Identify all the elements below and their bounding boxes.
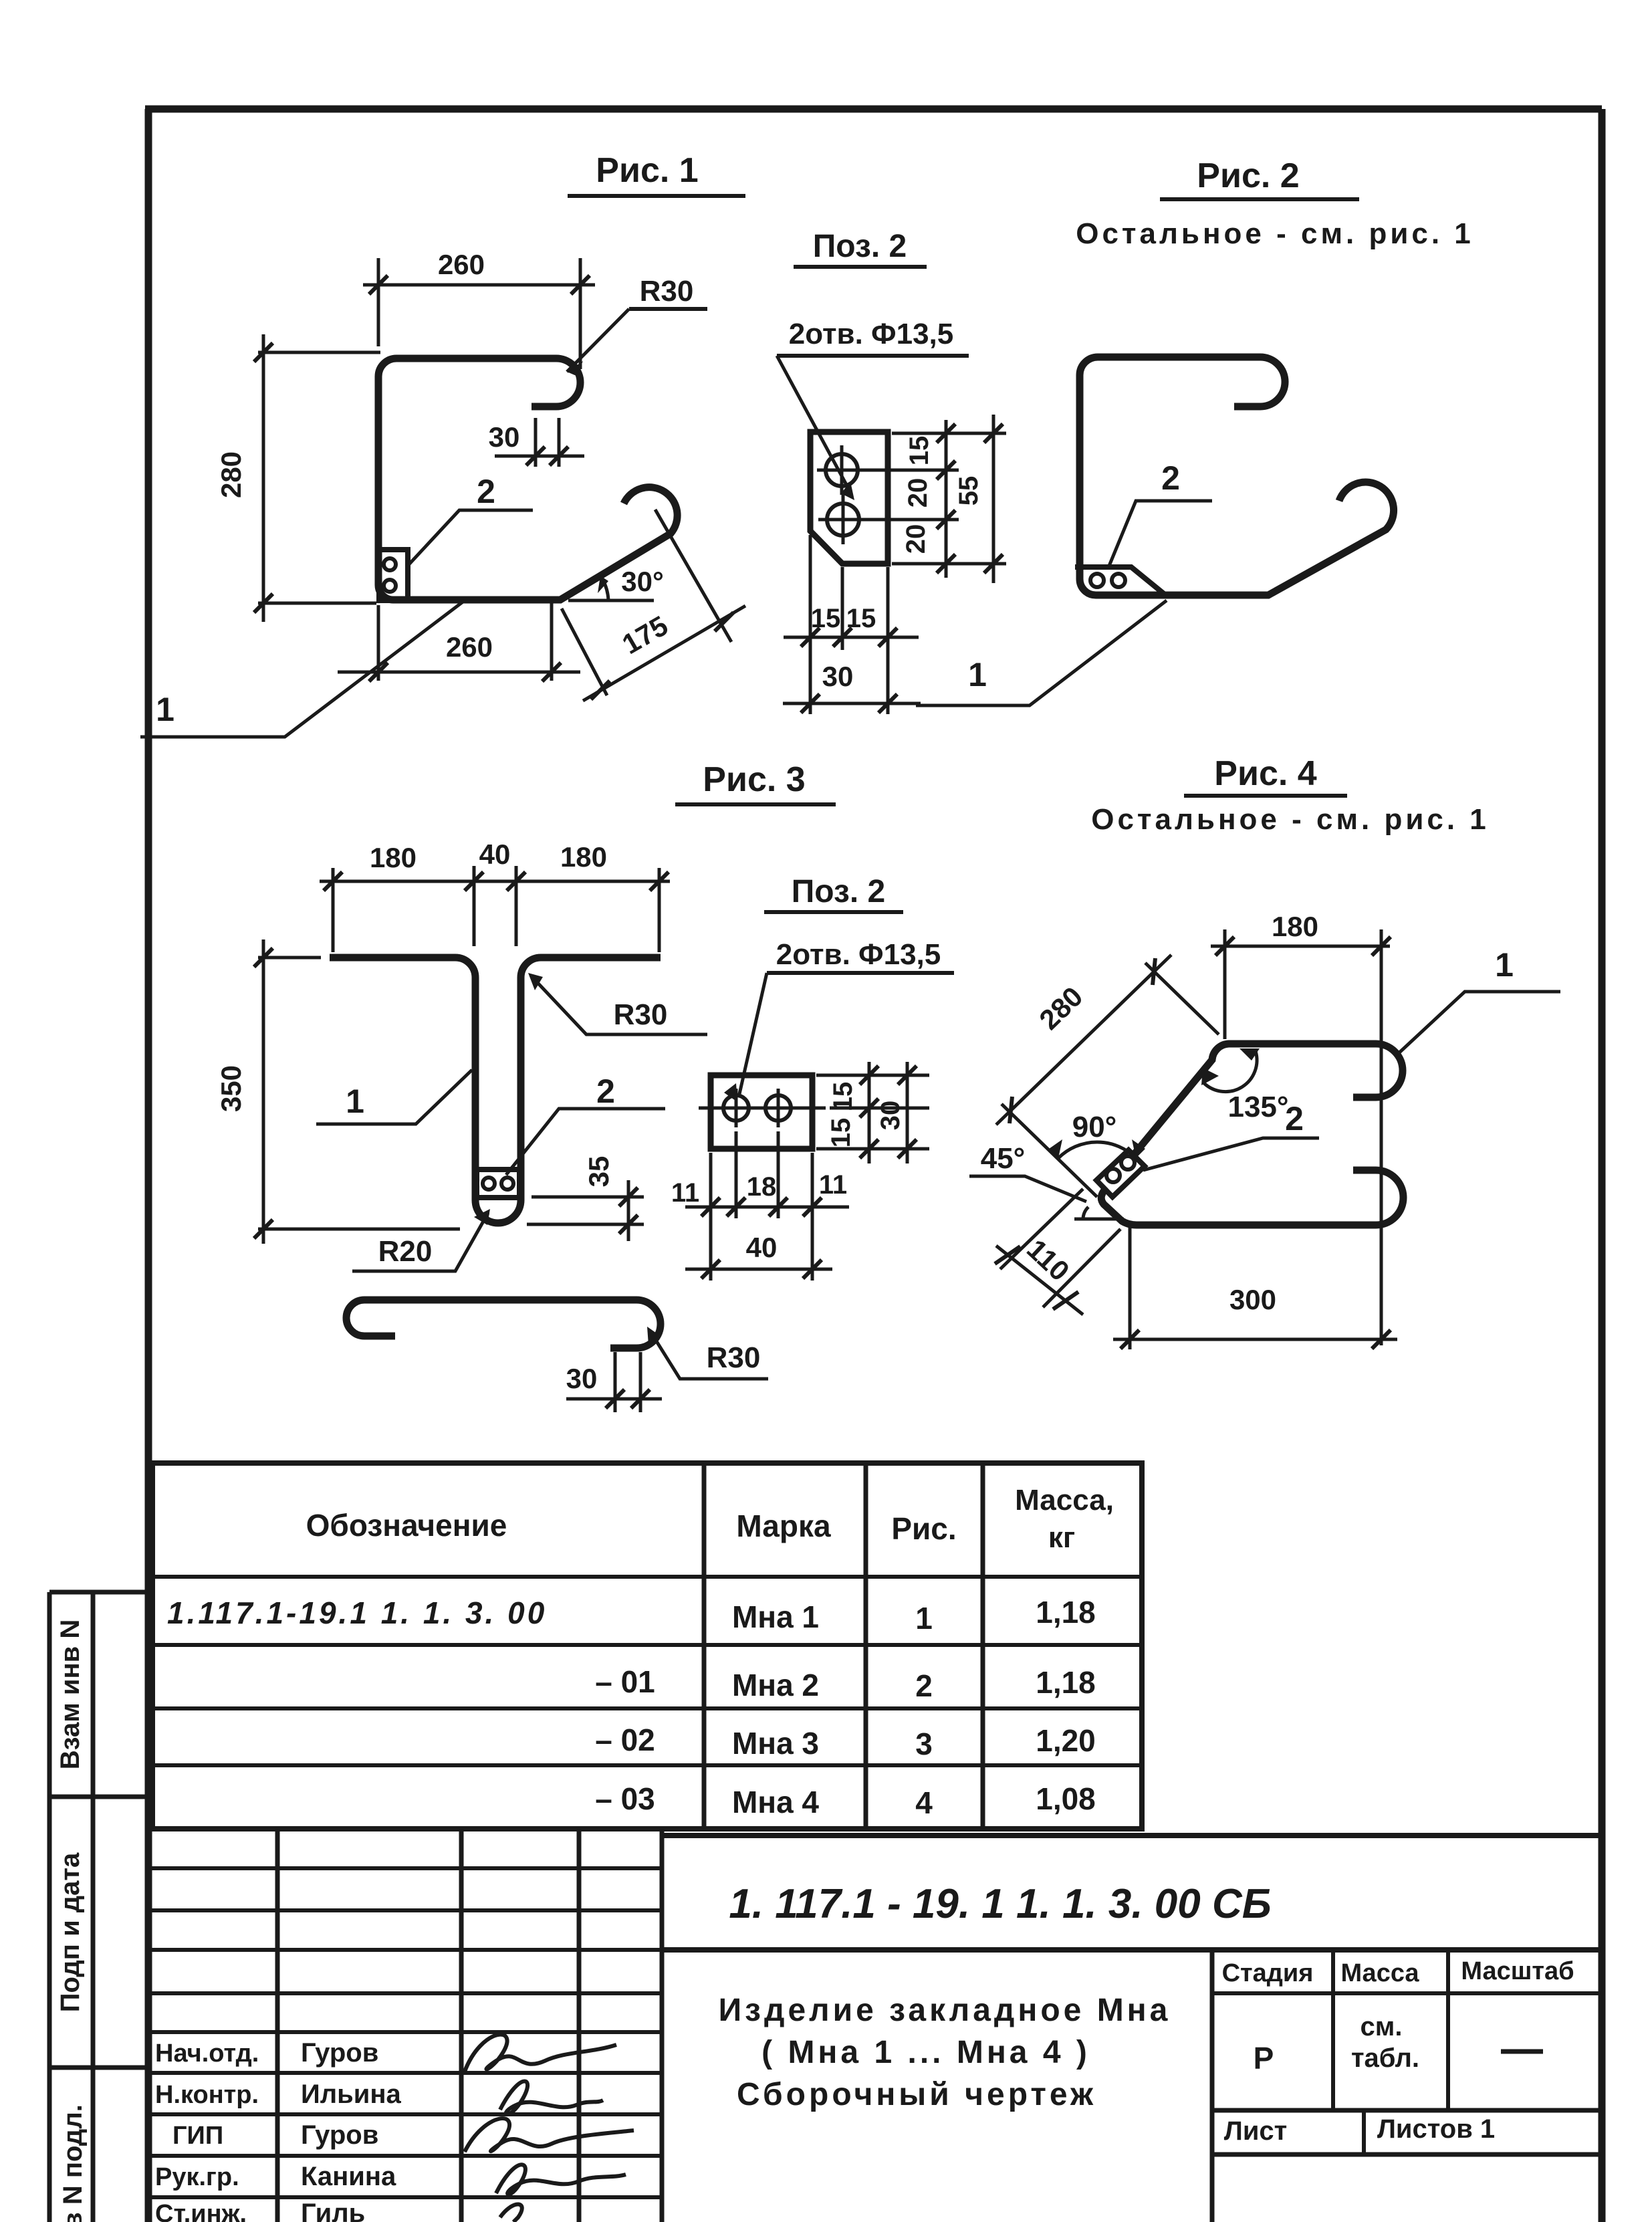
svg-text:280: 280 <box>215 451 247 498</box>
label 2 leader <box>406 510 533 567</box>
svg-text:2: 2 <box>1285 1100 1304 1137</box>
label 2 leader <box>506 1109 665 1175</box>
svg-text:2: 2 <box>596 1073 615 1110</box>
chain ticks <box>937 424 955 573</box>
label R20 arrowhead <box>474 1209 490 1225</box>
dim 11/18/11 line <box>685 1206 849 1209</box>
right extension lines <box>892 433 1006 564</box>
svg-text:2: 2 <box>477 473 495 510</box>
svg-text:15: 15 <box>826 1118 856 1148</box>
dim 180 line <box>1211 945 1390 948</box>
hole left <box>723 1095 749 1121</box>
svg-text:R30: R30 <box>640 275 694 308</box>
table column lines <box>704 1463 983 1829</box>
fig1 poz.2 detail group <box>777 229 1006 714</box>
name/stage divider <box>1210 1950 1215 2222</box>
leader arrowhead <box>841 481 854 500</box>
wire Mна3 T outline <box>330 958 661 1223</box>
dim 180/300 shared right extension <box>1380 929 1383 1345</box>
svg-text:Гуров: Гуров <box>301 2038 378 2068</box>
svg-text:Масштаб: Масштаб <box>1461 1957 1574 1985</box>
title underline <box>1184 794 1347 798</box>
svg-text:2: 2 <box>1161 459 1180 497</box>
stage grid header bottom <box>1212 1991 1602 1995</box>
dim 15/15 ticks <box>860 1066 878 1158</box>
svg-text:2отв. Ф13,5: 2отв. Ф13,5 <box>789 318 954 350</box>
angle 30 deg arc <box>600 576 608 600</box>
svg-text:Изделие закладное Мна: Изделие закладное Мна <box>719 1993 1171 2028</box>
svg-text:30: 30 <box>822 661 854 692</box>
dim 175 extension from corner <box>562 608 607 695</box>
label 1 leader <box>140 600 465 737</box>
dim 30 extensions <box>615 1352 640 1412</box>
dim 15|15 line <box>784 636 919 639</box>
svg-text:Остальное - см. рис. 1: Остальное - см. рис. 1 <box>1076 217 1474 250</box>
doc number box bottom <box>662 1947 1602 1953</box>
svg-text:– 02: – 02 <box>595 1723 655 1757</box>
strip outline <box>49 1592 148 2222</box>
svg-text:Ст.инж.: Ст.инж. <box>155 2200 247 2222</box>
svg-text:Рис. 3: Рис. 3 <box>703 760 805 799</box>
svg-text:2: 2 <box>915 1668 933 1703</box>
svg-text:1: 1 <box>156 691 174 728</box>
angle 90 arrow right <box>1132 1139 1145 1158</box>
svg-text:15: 15 <box>828 1082 858 1112</box>
wire Mна4 outline <box>1101 1044 1403 1225</box>
doc number box top <box>662 1833 1602 1838</box>
svg-text:18: 18 <box>747 1172 777 1202</box>
label R30 lower leader <box>650 1331 768 1379</box>
angle 135 arrow top <box>1240 1048 1260 1061</box>
dim 35 extension lines <box>527 1197 644 1224</box>
svg-text:Гиль: Гиль <box>301 2199 365 2222</box>
dim 35 line <box>627 1180 630 1241</box>
dim 35 ticks <box>619 1188 638 1234</box>
stage values bottom <box>1212 2108 1602 2113</box>
label 1 leader <box>916 600 1167 705</box>
leader arrowhead <box>724 1083 737 1102</box>
dim 180 ticks <box>1215 937 1391 956</box>
dim 110 line <box>996 1246 1083 1315</box>
frame left border <box>145 109 152 2222</box>
dim 260 bottom extensions <box>378 603 552 681</box>
лист row bottom <box>1212 2152 1602 2157</box>
svg-text:Рис. 2: Рис. 2 <box>1197 156 1299 195</box>
svg-text:260: 260 <box>446 631 493 663</box>
dim 180 extension left <box>1223 929 1227 1039</box>
signature table rows <box>148 1868 662 2197</box>
dim 175 extension from hook <box>655 510 731 642</box>
dim 350 left line <box>262 939 265 1244</box>
label leader <box>739 973 767 1094</box>
svg-text:R30: R30 <box>614 998 668 1031</box>
dim ticks <box>324 872 669 891</box>
right extension lines <box>816 1075 929 1149</box>
label leader <box>777 356 850 492</box>
svg-text:Лист: Лист <box>1224 2116 1288 2146</box>
bottom extension lines <box>810 535 888 714</box>
svg-text:Поз. 2: Поз. 2 <box>813 229 907 264</box>
svg-text:350: 350 <box>215 1065 247 1112</box>
svg-text:40: 40 <box>479 839 511 870</box>
angle 30 arc arrow <box>598 576 608 593</box>
svg-text:– 01: – 01 <box>595 1664 655 1699</box>
plate hole lower <box>1106 1169 1120 1182</box>
hole left crosshair <box>735 1089 738 1127</box>
svg-text:2отв. Ф13,5: 2отв. Ф13,5 <box>776 938 941 971</box>
svg-text:1. 117.1 - 19. 1 1. 1. 3. 00: 1. 117.1 - 19. 1 1. 1. 3. 00 СБ <box>729 1881 1271 1927</box>
title underline <box>794 265 927 269</box>
svg-text:Обозначение: Обозначение <box>306 1508 507 1543</box>
svg-text:15: 15 <box>811 604 841 633</box>
dim 55 ticks <box>984 424 1003 573</box>
dim 350 ticks <box>254 948 273 1238</box>
svg-text:135°: 135° <box>1227 1091 1288 1123</box>
left margin stamp strip <box>49 1592 148 2222</box>
label underline <box>777 354 969 358</box>
svg-text:20: 20 <box>901 524 931 554</box>
label R20 leader <box>352 1213 488 1271</box>
label underline <box>767 971 954 975</box>
dim 300 extension left <box>1129 1228 1132 1349</box>
frame top border <box>145 106 1602 113</box>
svg-text:– 03: – 03 <box>595 1781 655 1816</box>
dim 40 line <box>685 1268 832 1271</box>
wire Mна3 lower S piece <box>346 1300 661 1348</box>
hole right <box>765 1095 791 1121</box>
svg-text:Гуров: Гуров <box>301 2120 378 2150</box>
svg-text:11: 11 <box>671 1178 699 1208</box>
svg-text:1: 1 <box>915 1601 933 1636</box>
angle 30 deg ref line <box>568 599 654 602</box>
signature 1 <box>465 2035 616 2072</box>
svg-text:Рис. 1: Рис. 1 <box>596 151 698 190</box>
svg-text:3: 3 <box>915 1727 933 1761</box>
dim 175 ticks <box>591 613 733 699</box>
label 2 leader <box>1108 501 1212 569</box>
svg-text:Сборочный чертеж: Сборочный чертеж <box>737 2077 1096 2112</box>
dim 280 extension upper <box>1145 963 1219 1034</box>
svg-text:Подп и дата: Подп и дата <box>55 1852 85 2012</box>
svg-text:1,18: 1,18 <box>1036 1595 1096 1630</box>
fig3 poz.2 detail group <box>671 874 954 1281</box>
svg-text:R20: R20 <box>378 1235 433 1268</box>
svg-text:Стадия: Стадия <box>1222 1959 1314 1987</box>
dim 11/18/11 ticks <box>701 1198 822 1216</box>
dim chain line 15/20/20 <box>945 420 948 578</box>
title underline <box>675 802 836 806</box>
svg-text:см.: см. <box>1361 2012 1403 2041</box>
svg-text:Р: Р <box>1254 2041 1274 2076</box>
svg-text:15: 15 <box>846 604 876 633</box>
лист/листов divider <box>1362 2110 1366 2154</box>
anchor plate on fig4 <box>1096 1150 1145 1197</box>
svg-text:Марка: Марка <box>736 1509 831 1543</box>
label 2 leader <box>1143 1138 1319 1170</box>
svg-text:15: 15 <box>905 436 934 466</box>
dim 30 line <box>906 1062 909 1163</box>
svg-text:Н.контр.: Н.контр. <box>155 2081 259 2109</box>
dim 300 ticks <box>1120 1330 1391 1349</box>
svg-text:180: 180 <box>370 842 417 873</box>
signature 2 <box>500 2081 603 2114</box>
svg-text:1,20: 1,20 <box>1036 1723 1096 1758</box>
dim 30 line <box>566 1398 662 1401</box>
svg-text:( Мна 1 ... Мна 4 ): ( Мна 1 ... Мна 4 ) <box>761 2035 1090 2070</box>
dim 30 hook gap extensions <box>536 418 559 467</box>
dim extension lines <box>333 866 659 952</box>
figure 2 group <box>916 156 1474 705</box>
holes centerline <box>699 1107 826 1110</box>
label R30 underline <box>629 307 707 311</box>
svg-text:Масса: Масса <box>1340 1959 1419 1987</box>
dim 15|15 ticks <box>801 628 897 647</box>
svg-text:45°: 45° <box>981 1142 1026 1175</box>
svg-text:Масса,: Масса, <box>1015 1484 1114 1517</box>
dim 280 extension lines <box>258 352 380 603</box>
signature table columns <box>277 1829 662 2222</box>
table outer box <box>152 1463 1142 1829</box>
svg-text:Рис.: Рис. <box>891 1511 956 1546</box>
dim 175 line <box>583 606 745 701</box>
dim 15/15 line <box>868 1062 871 1163</box>
plate pentagon <box>810 432 888 564</box>
angle 90 arrow left <box>1049 1139 1062 1158</box>
plate hole left <box>483 1178 495 1190</box>
svg-text:Поз. 2: Поз. 2 <box>792 874 885 909</box>
value dash <box>1501 2049 1543 2054</box>
svg-text:1: 1 <box>346 1083 364 1120</box>
dim 30 line <box>495 455 584 458</box>
svg-text:в N подл.: в N подл. <box>58 2104 88 2222</box>
stage grid verticals <box>1333 1950 1448 2110</box>
svg-text:1: 1 <box>1495 946 1514 984</box>
plate hole upper <box>384 558 396 570</box>
hole lower crosshair <box>818 495 959 544</box>
anchor plate on fig2 <box>1075 567 1164 594</box>
svg-text:Нач.отд.: Нач.отд. <box>155 2039 259 2068</box>
dim 30 ticks <box>526 447 568 465</box>
hole lower <box>827 504 859 536</box>
title underline <box>568 194 745 198</box>
dim 280 line <box>996 955 1171 1125</box>
svg-text:1.117.1-19.1 1. 1. 3. 00: 1.117.1-19.1 1. 1. 3. 00 <box>167 1595 547 1630</box>
dim 180/40/180 line <box>320 880 670 883</box>
label R30 lower arrowhead <box>647 1327 661 1345</box>
svg-text:Рис. 4: Рис. 4 <box>1214 754 1316 793</box>
dim 30 line <box>783 702 921 705</box>
svg-text:Мна 1: Мна 1 <box>732 1599 819 1634</box>
svg-text:1: 1 <box>968 656 987 693</box>
svg-text:30°: 30° <box>621 566 664 597</box>
label R30 arrowhead <box>528 973 543 990</box>
svg-text:Мна 2: Мна 2 <box>732 1668 819 1702</box>
label 1 leader <box>1398 992 1560 1054</box>
wire Mна2 outline <box>1080 357 1394 595</box>
signature 5 <box>500 2204 522 2222</box>
svg-text:ГИП: ГИП <box>172 2122 223 2150</box>
svg-text:Остальное - см. рис. 1: Остальное - см. рис. 1 <box>1091 803 1490 836</box>
dim 55 line <box>992 415 995 583</box>
plate hole right <box>501 1178 513 1190</box>
svg-text:1,18: 1,18 <box>1036 1665 1096 1700</box>
hole right crosshair <box>777 1089 780 1127</box>
dim 280 left line <box>262 334 265 622</box>
svg-text:30: 30 <box>876 1101 905 1131</box>
dim 280 ticks <box>254 343 273 613</box>
dim 30 ticks <box>801 694 897 713</box>
angle 135 arrow bottom <box>1201 1068 1219 1085</box>
label R30 arrowhead <box>567 361 583 376</box>
dim 260 top ticks <box>369 275 590 294</box>
plate hole left <box>1090 574 1104 587</box>
svg-text:20: 20 <box>903 478 933 508</box>
label R30 leader <box>567 309 629 372</box>
anchor plate poz.2 on fig1 <box>379 550 408 600</box>
dim 30 ticks <box>606 1390 650 1408</box>
angle 45 small arc <box>1083 1207 1088 1219</box>
table row lines <box>152 1577 1142 1765</box>
angle 45 leader <box>969 1176 1086 1202</box>
anchor plate on fig3 <box>477 1170 519 1198</box>
hole upper <box>826 454 858 486</box>
hole upper crosshair <box>817 445 959 495</box>
plate hole lower <box>384 580 396 592</box>
figure 1 group <box>140 151 745 737</box>
dim 260 top line <box>363 284 595 287</box>
svg-text:180: 180 <box>1272 911 1318 942</box>
svg-text:Мна 4: Мна 4 <box>732 1785 819 1819</box>
svg-text:1,08: 1,08 <box>1036 1781 1096 1816</box>
figure 3 group <box>215 760 836 1412</box>
label R30 leader <box>531 976 707 1034</box>
svg-text:30: 30 <box>489 421 520 453</box>
dim 30 ticks <box>898 1066 917 1158</box>
plate rectangle <box>711 1075 812 1149</box>
dim 300 line <box>1113 1338 1397 1341</box>
figure 4 group <box>969 754 1560 1349</box>
angle 45 ref line <box>1074 1218 1124 1221</box>
dim 280 ticks <box>1010 958 1155 1123</box>
signature 3 <box>465 2118 634 2152</box>
svg-text:11: 11 <box>819 1170 847 1200</box>
parts table <box>152 1463 1142 1829</box>
bottom extension lines <box>711 1131 812 1281</box>
title block top line <box>148 1827 662 1831</box>
svg-text:35: 35 <box>583 1156 614 1188</box>
wire Mна1 outline <box>378 358 677 600</box>
dim 260 bottom ticks <box>369 663 561 681</box>
dim 110 extension lower <box>1043 1229 1120 1307</box>
svg-text:55: 55 <box>954 476 983 506</box>
angle 135 arc <box>1204 1051 1257 1092</box>
title underline <box>1160 197 1359 201</box>
dim 40 ticks <box>701 1260 822 1279</box>
svg-text:30: 30 <box>566 1363 598 1394</box>
svg-text:300: 300 <box>1229 1284 1276 1315</box>
svg-text:табл.: табл. <box>1351 2043 1419 2073</box>
dim 350 extensions <box>258 958 460 1229</box>
svg-text:180: 180 <box>560 841 607 873</box>
plate hole right <box>1112 574 1125 587</box>
svg-text:4: 4 <box>915 1785 933 1820</box>
svg-text:Рук.гр.: Рук.гр. <box>155 2163 239 2191</box>
svg-text:Канина: Канина <box>301 2162 396 2191</box>
svg-text:40: 40 <box>746 1232 778 1263</box>
svg-text:R30: R30 <box>707 1341 761 1374</box>
svg-text:90°: 90° <box>1072 1111 1117 1143</box>
dim 280 extension lower <box>1001 1104 1097 1197</box>
dim 260 bottom line <box>338 671 580 674</box>
label 1 leader <box>316 1070 472 1124</box>
dim 110 extension upper <box>1000 1189 1083 1269</box>
svg-text:Взам инв N: Взам инв N <box>55 1620 85 1770</box>
angle 90 arc <box>1058 1142 1136 1158</box>
svg-text:Мна 3: Мна 3 <box>732 1726 819 1761</box>
title block <box>148 1829 1602 2222</box>
dim 110 ticks <box>995 1246 1078 1309</box>
plate hole upper <box>1121 1156 1135 1170</box>
signature 4 <box>496 2164 626 2194</box>
svg-text:Листов 1: Листов 1 <box>1377 2114 1495 2144</box>
title underline <box>764 910 903 914</box>
svg-text:кг: кг <box>1048 1521 1075 1554</box>
frame right border <box>1599 109 1606 2222</box>
svg-text:260: 260 <box>438 249 485 280</box>
dim 260 top extension lines <box>378 258 580 369</box>
svg-text:Ильина: Ильина <box>301 2080 402 2109</box>
